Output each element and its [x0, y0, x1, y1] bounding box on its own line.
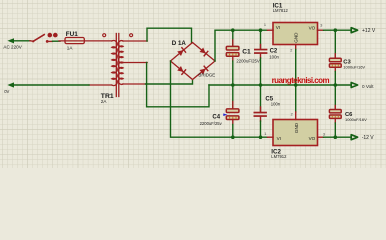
terminal 0V arrow (primary return) [7, 82, 89, 87]
junction B- rail / C5 [259, 135, 263, 139]
junction 0V rail / C3-C6 [334, 83, 338, 87]
terminal AC input arrow [7, 38, 30, 43]
wire AC1: secondary top to bridge top [147, 28, 192, 43]
junction 0V rail / C2-C5 [259, 83, 263, 87]
terminal +12V arrow [351, 28, 357, 33]
svg-text:C1: C1 [242, 48, 251, 55]
capacitor C3 [329, 30, 341, 85]
diode L-T [177, 48, 185, 56]
IC1 pin 2 stub [295, 45, 297, 50]
svg-text:C4: C4 [212, 114, 220, 120]
svg-text:VI: VI [277, 136, 281, 141]
capacitor C6 [329, 85, 341, 137]
transformer secondary lead top [123, 40, 147, 42]
svg-text:1000uF/16V: 1000uF/16V [343, 65, 365, 70]
transformer primary lead bottom [89, 84, 112, 86]
transformer core [116, 34, 119, 97]
capacitor C2 [254, 30, 267, 85]
IC1 regulator LM7812 [273, 23, 318, 45]
svg-text:2200uF/25v: 2200uF/25v [200, 121, 223, 126]
junction +12V rail / C3 [334, 28, 338, 32]
diode L-B [177, 66, 185, 74]
diode T-R [200, 48, 208, 56]
svg-text:LM7812: LM7812 [273, 8, 289, 13]
svg-text:VO: VO [309, 136, 316, 141]
svg-text:100n: 100n [271, 102, 281, 107]
capacitor C1 [226, 30, 239, 85]
switch terminal stub [46, 40, 53, 43]
junction 0V rail / IC GND [294, 83, 298, 87]
svg-text:GND: GND [294, 32, 299, 43]
svg-text:2: 2 [290, 48, 292, 52]
transformer secondary lead bottom [123, 83, 146, 85]
junction 0V rail / C1-C4 [231, 83, 235, 87]
svg-text:ruangteknisi.com: ruangteknisi.com [272, 76, 330, 85]
svg-text:GND: GND [294, 122, 299, 133]
svg-text:-12 V: -12 V [362, 135, 375, 141]
svg-text:100n: 100n [269, 55, 279, 60]
switch contact dots [48, 33, 53, 38]
svg-text:1000uF/16V: 1000uF/16V [345, 117, 367, 122]
wire center tap down [147, 63, 209, 107]
svg-text:0 Volt: 0 Volt [362, 84, 374, 89]
transformer primary polarity dot [103, 34, 106, 37]
transformer secondary polarity dot [130, 34, 133, 37]
svg-text:D 1A: D 1A [172, 40, 187, 47]
terminal -12V arrow [351, 135, 357, 140]
transformer TR1 primary winding [112, 41, 117, 86]
svg-text:3: 3 [323, 132, 325, 136]
svg-text:0V: 0V [4, 89, 9, 94]
svg-text:AC 220V: AC 220V [3, 45, 22, 50]
svg-text:1: 1 [264, 23, 266, 27]
capacitor C5 [254, 85, 267, 137]
wire stub to switch pivot [30, 40, 34, 42]
IC2 pin 1 stub [268, 136, 274, 138]
svg-text:2200uF/25V: 2200uF/25V [236, 58, 260, 63]
transformer secondary lead center tap [123, 62, 147, 64]
wire AC2: secondary bottom to bridge bottom [146, 80, 193, 85]
svg-text:+12 V: +12 V [362, 28, 376, 34]
wire IC2 VO to -12V terminal [324, 136, 352, 138]
IC2 pin 3 stub [318, 136, 324, 138]
wire IC1 VO to +12V terminal [324, 29, 352, 31]
svg-text:VI: VI [276, 25, 280, 30]
wire B- : bridge left corner down to negative rail [171, 61, 268, 137]
svg-text:1A: 1A [67, 45, 74, 50]
bridge rectifier D1 [171, 43, 216, 80]
junction B+ rail / C1 [231, 28, 235, 32]
svg-text:3: 3 [320, 23, 322, 27]
wire 0V rail [209, 84, 352, 86]
junction B+ rail / C2 [259, 28, 263, 32]
transformer secondary winding lower [118, 62, 123, 84]
switch SW1 lever [32, 35, 44, 43]
svg-text:BRIDGE: BRIDGE [198, 73, 215, 78]
fuse FU1 [59, 38, 112, 44]
svg-text:1: 1 [264, 132, 266, 136]
capacitor C4 [223, 85, 239, 137]
wire switch to fuse [53, 40, 61, 42]
svg-text:C2: C2 [270, 49, 278, 55]
svg-text:2: 2 [291, 112, 293, 116]
wire B+ : bridge right corner to IC1 VI [215, 30, 268, 61]
svg-text:2A: 2A [101, 99, 108, 104]
transformer secondary winding upper [118, 41, 123, 63]
diode B-R [200, 66, 208, 74]
junction B- rail / C4 [231, 135, 235, 139]
svg-text:VO: VO [309, 26, 316, 31]
terminal 0 Volt arrow [351, 83, 357, 88]
junction -12V rail / C6 [334, 135, 338, 139]
svg-text:FU1: FU1 [66, 31, 79, 38]
wire IC1 GND down to 0V rail and IC2 GND [295, 50, 297, 113]
IC1 pin 3 stub [318, 29, 324, 31]
IC2 pin 2 stub [295, 112, 297, 120]
IC1 pin 1 stub [268, 29, 274, 31]
IC2 regulator LM7912 [273, 120, 318, 146]
svg-text:LM7912: LM7912 [271, 154, 287, 159]
